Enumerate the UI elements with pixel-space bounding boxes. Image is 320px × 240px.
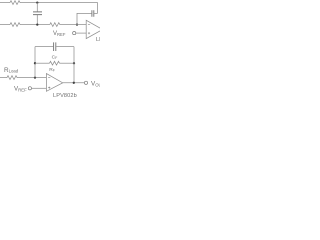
node C1 bottom	[36, 23, 38, 25]
wire feedback U1a left segment	[77, 13, 92, 24]
resistor R2	[10, 23, 20, 27]
capacitor CF	[54, 42, 56, 51]
resistor R3	[50, 23, 60, 27]
node output junction	[73, 82, 75, 84]
resistor RLOAD	[7, 76, 17, 80]
svg-text:RF: RF	[49, 67, 55, 73]
svg-text:VREF: VREF	[14, 86, 27, 93]
svg-text:CF: CF	[52, 55, 58, 61]
svg-text:LPV802a: LPV802a	[96, 37, 100, 43]
wire W2 left (input net)	[0, 24, 10, 26]
wire VREF to U1b	[32, 87, 47, 89]
wire RF left segment	[35, 62, 50, 64]
wire W3 right into U1b	[17, 77, 46, 79]
op-amp U1b	[46, 74, 62, 92]
wire W3 left	[0, 77, 7, 79]
wire W1 right to output node drop	[20, 3, 98, 14]
node RF right	[73, 62, 75, 64]
wire feedback left vertical	[34, 47, 36, 78]
wire W2 right into U1a	[60, 24, 86, 26]
node C1 top	[36, 1, 38, 3]
svg-text:VREF: VREF	[53, 31, 66, 37]
node U1a inverting junction	[76, 23, 78, 25]
wire CF left segment	[35, 46, 53, 48]
wire feedback right vertical	[73, 47, 75, 83]
op-amp U1a	[86, 20, 102, 38]
resistor RF	[50, 61, 60, 65]
terminal VOUT	[84, 81, 87, 84]
wire VREF to U1a	[76, 32, 86, 34]
wire W1 left (top net)	[0, 2, 10, 4]
resistor R1	[10, 1, 20, 5]
node RF left	[34, 62, 36, 64]
terminal VREF (U1b +)	[28, 87, 31, 90]
svg-text:RLoad: RLoad	[4, 67, 19, 74]
wire feedback U1a right segment	[94, 12, 97, 14]
capacitor C1	[36, 3, 38, 25]
capacitor C2 (U1a feedback)	[92, 10, 94, 17]
svg-text:LPV802b: LPV802b	[53, 93, 77, 99]
terminal VREF (U1a +)	[73, 31, 76, 34]
svg-text:VOUT: VOUT	[91, 80, 100, 87]
wire output U1b	[63, 82, 85, 84]
wire CF right segment	[56, 46, 74, 48]
wire W2 middle	[20, 24, 50, 26]
wire RF right segment	[60, 62, 75, 64]
node feedback tap on W3	[34, 76, 36, 78]
